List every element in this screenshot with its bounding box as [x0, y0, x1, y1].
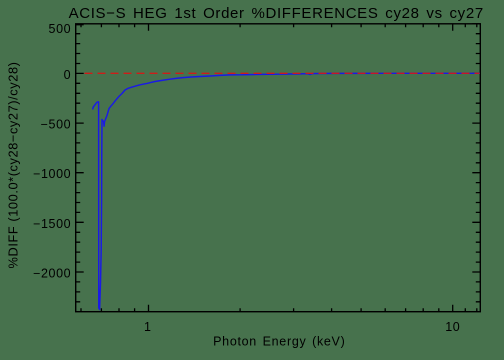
x-axis major ticks bottom	[149, 305, 453, 312]
svg-text:%DIFF (100.0*(cy28−cy27)/cy28): %DIFF (100.0*(cy28−cy27)/cy28)	[5, 62, 20, 269]
x-axis minor ticks bottom	[81, 308, 477, 312]
x-axis minor ticks top	[81, 24, 477, 28]
svg-text:−2000: −2000	[33, 266, 71, 280]
svg-text:ACIS−S HEG 1st Order %DIFFEREN: ACIS−S HEG 1st Order %DIFFERENCES cy28 v…	[69, 5, 484, 22]
plot frame	[76, 24, 481, 312]
y-axis minor ticks right	[476, 34, 481, 302]
svg-text:1: 1	[144, 320, 152, 334]
y-axis major ticks left	[76, 25, 84, 272]
svg-text:500: 500	[49, 22, 72, 36]
blue difference curve	[93, 73, 480, 309]
svg-text:−1500: −1500	[33, 217, 71, 231]
y-axis minor ticks left	[76, 34, 81, 302]
svg-text:0: 0	[64, 68, 72, 82]
y-axis major ticks right	[472, 24, 480, 272]
svg-text:10: 10	[445, 320, 460, 334]
svg-text:−1000: −1000	[33, 167, 71, 181]
svg-text:−500: −500	[41, 118, 72, 132]
x-axis major ticks top	[149, 24, 453, 31]
svg-text:Photon Energy (keV): Photon Energy (keV)	[213, 334, 345, 348]
red dashed zero line	[85, 72, 480, 74]
